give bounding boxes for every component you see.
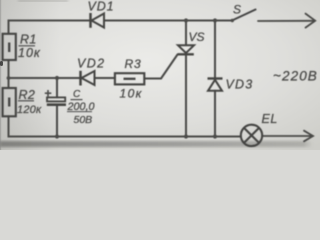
thyristor VS (178, 45, 195, 54)
wire left: R1 bottom to R2 top (8, 60, 10, 88)
wire middle: VD2 anode to R3 (96, 77, 116, 79)
node: VS anode / top rail (184, 18, 188, 22)
resistor R3 (115, 73, 144, 84)
svg-text:10к: 10к (120, 87, 143, 101)
svg-text:VD1: VD1 (88, 0, 115, 14)
lamp EL (241, 125, 262, 146)
svg-text:S: S (233, 3, 241, 17)
wire: capacitor C1 bottom lead (56, 106, 58, 137)
wire top: VD1 anode to switch pivot (104, 20, 232, 22)
switch S pivot (231, 19, 234, 22)
svg-text:EL: EL (262, 112, 279, 126)
svg-text:~220В: ~220В (273, 68, 318, 83)
wire middle: R3 to gate bend (144, 78, 161, 80)
wire: VD3 anode to bottom rail (214, 91, 216, 137)
resistor R1 (3, 34, 16, 60)
wire left: R2 bottom to bottom rail (9, 116, 241, 136)
wire: mains line top with arrow (258, 20, 315, 22)
node: VS cathode / bottom rail (184, 134, 188, 138)
wire: VS gate diagonal (161, 55, 178, 79)
svg-text:10к: 10к (18, 46, 41, 60)
switch S blade (232, 10, 256, 21)
svg-text:120к: 120к (17, 104, 42, 116)
node: VD3 anode / bottom rail (213, 134, 217, 138)
polarity plus of C1 (45, 90, 52, 96)
svg-text:VD2: VD2 (77, 57, 106, 71)
label R2 with underline (17, 88, 42, 116)
wire: VS cathode to bottom rail (185, 55, 187, 137)
label C with underline (67, 89, 95, 126)
node: C1 top / middle rail (55, 76, 59, 80)
wire: VD3 cathode from top rail (214, 21, 216, 79)
wire top-left: corner to VD1 cathode (9, 21, 90, 34)
diode VD1 (91, 13, 105, 28)
capacitor C1 (electrolytic) (47, 97, 66, 104)
wire: VS anode from top rail (185, 21, 187, 46)
node: C1 bottom / bottom rail (55, 134, 59, 138)
node: VD3 cathode / top rail (213, 18, 217, 22)
svg-text:50В: 50В (74, 114, 93, 126)
diode VD2 (81, 71, 95, 86)
svg-text:R1: R1 (20, 33, 37, 47)
svg-text:R3: R3 (125, 57, 142, 71)
resistor R2 (3, 88, 16, 116)
wire: mains line bottom with arrow (262, 135, 312, 137)
svg-text:C: C (73, 89, 81, 100)
label R1 with underline (18, 33, 41, 61)
node: middle rail / left rail (7, 76, 11, 80)
svg-text:VS: VS (189, 30, 205, 44)
wire: capacitor C1 top lead (56, 78, 58, 97)
diode VD3 (208, 79, 223, 91)
svg-text:VD3: VD3 (226, 78, 254, 92)
wire middle rail: left rail to VD2 cathode (9, 77, 80, 79)
svg-text:R2: R2 (19, 88, 36, 102)
